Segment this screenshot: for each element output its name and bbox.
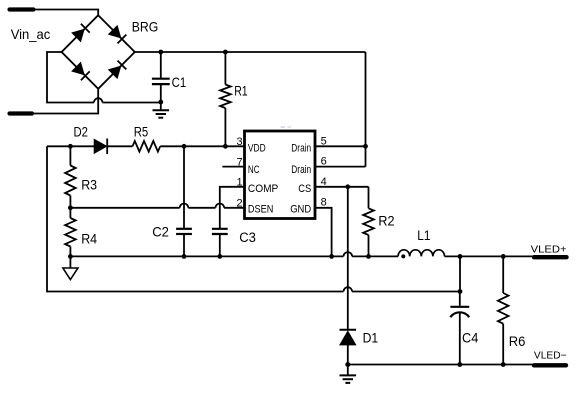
diode D2 triangle — [94, 139, 106, 153]
junction C2 bottom on rail — [182, 254, 187, 259]
junction CS node — [345, 184, 350, 189]
svg-text:C4: C4 — [462, 330, 479, 345]
wire D2 to R5 — [107, 145, 132, 147]
junction R6 bottom on VLED- rail — [501, 362, 506, 367]
svg-text:C1: C1 — [172, 75, 187, 90]
resistor R6 top lead — [502, 256, 504, 293]
svg-text:4: 4 — [321, 176, 327, 188]
svg-text:7: 7 — [236, 157, 242, 169]
wire feedback rail from left loop — [47, 146, 344, 291]
wire DSEN between hops — [188, 207, 215, 209]
svg-text:1: 1 — [236, 177, 242, 189]
svg-text:VLED+: VLED+ — [531, 245, 567, 256]
bridge diode upper-left (left to top vertex) — [72, 29, 84, 41]
junction R6 top on rail — [501, 254, 506, 259]
junction L1 output node — [458, 254, 463, 259]
wire bridge left vertex down to lower rail — [47, 52, 94, 103]
wire VLED- rail — [348, 364, 535, 366]
junction R4 bottom on rail — [68, 254, 73, 259]
svg-text:3: 3 — [236, 136, 242, 148]
bridge diode lower-left (left to bottom vertex) — [72, 63, 84, 75]
svg-text:COMP: COMP — [248, 183, 278, 195]
wire hop DSEN over C2 wire — [180, 204, 189, 208]
diode D1 anode lead — [347, 345, 349, 365]
diode D1 cathode bar — [340, 329, 357, 331]
junction C3 bottom on rail — [217, 254, 222, 259]
svg-text:BRG: BRG — [132, 19, 159, 34]
capacitor C2 top lead — [183, 146, 185, 228]
svg-text:R4: R4 — [81, 231, 97, 246]
svg-text:R1: R1 — [234, 84, 248, 99]
resistor R1 bottom lead — [224, 108, 226, 146]
wire NC pin 7 stub — [222, 166, 244, 168]
wire CS node down to D1 cathode — [347, 187, 349, 330]
resistor R3 top lead — [69, 146, 71, 165]
wire GND pin 8 to rail — [315, 208, 332, 257]
svg-text:VDD: VDD — [248, 143, 266, 155]
junction feedback rail at C4 — [458, 289, 463, 294]
svg-text:NC: NC — [248, 164, 260, 176]
svg-text:R5: R5 — [134, 125, 149, 140]
resistor R2 bottom lead — [368, 235, 370, 256]
resistor R5 body — [133, 141, 161, 152]
svg-text:Drain: Drain — [291, 143, 311, 155]
junction Drain pin 5 node — [363, 144, 368, 149]
inductor L1 phase dot — [401, 254, 405, 258]
junction C2 top — [182, 144, 187, 149]
svg-text:GND: GND — [290, 203, 311, 215]
svg-text:C3: C3 — [239, 230, 256, 246]
wire hop feedback rail over CS-D1 wire — [344, 287, 353, 291]
wire feedback rail to C4 node — [352, 291, 460, 293]
capacitor C2 plates — [176, 228, 192, 230]
bridge diode lower-right (bottom to right vertex) — [109, 66, 121, 78]
resistor R6 body — [498, 293, 509, 324]
junction R3/R4 DSEN node — [68, 205, 73, 210]
diode D2 cathode bar — [106, 139, 108, 155]
inductor L1 loops — [398, 250, 444, 257]
terminal bar Vin_ac bottom — [10, 111, 33, 115]
svg-text:R2: R2 — [378, 213, 394, 228]
resistor R6 bottom lead — [502, 324, 504, 365]
wire COMP pin 1 to C3 — [220, 187, 245, 229]
svg-text:2: 2 — [236, 198, 242, 210]
terminal bar VLED+ — [534, 255, 567, 259]
terminal bar VLED- — [534, 363, 566, 367]
svg-text:R6: R6 — [509, 334, 526, 349]
wire Drain5 to Drain6 vertical — [365, 146, 367, 166]
signal-ground triangle below R4 — [69, 256, 71, 268]
ground below C1 — [160, 103, 162, 111]
capacitor C1 plates — [152, 78, 170, 80]
capacitor C2 bottom lead — [183, 235, 185, 257]
junction D2 anode / R3 top — [68, 144, 73, 149]
wire left loop top corner to D2 anode — [47, 145, 94, 147]
capacitor C4 top plate — [450, 306, 469, 308]
capacitor C1 bottom lead — [160, 85, 162, 103]
bridge diode upper-right (top to right vertex) — [109, 26, 121, 38]
ground below D1 — [347, 365, 349, 376]
svg-text:Drain: Drain — [291, 164, 311, 176]
wire top rail right corner down to Drain pins — [365, 52, 367, 146]
wire CS pin 4 to R2 — [315, 186, 369, 188]
svg-text:8: 8 — [321, 197, 327, 209]
diode D1 triangle — [340, 331, 356, 345]
resistor R4 top lead — [69, 208, 71, 218]
resistor R2 body — [363, 208, 374, 235]
svg-text:R3: R3 — [81, 177, 97, 192]
svg-text:DSEN: DSEN — [248, 203, 273, 215]
junction C1 top — [158, 50, 163, 55]
resistor R4 bottom lead — [69, 247, 71, 257]
junction R1 top — [223, 50, 228, 55]
junction R2 bottom on rail — [366, 254, 371, 259]
wire Drain pin 6 stub — [315, 166, 366, 168]
svg-text:CS: CS — [298, 183, 311, 195]
wire L1 output down to feedback node — [459, 256, 461, 291]
junction D1 anode on VLED- rail — [345, 362, 350, 367]
wire L1 to VLED+ terminal — [445, 255, 535, 257]
resistor R4 body — [65, 218, 76, 247]
resistor R2 top lead — [368, 187, 370, 209]
svg-text:Vin_ac: Vin_ac — [11, 27, 51, 42]
IC box U1 — [245, 131, 316, 219]
wire hop DSEN over COMP/C3 wire — [216, 204, 225, 208]
capacitor C4 bottom lead — [459, 312, 461, 364]
wire DSEN pin 2 stub — [224, 207, 244, 209]
wire Drain pin 5 stub — [315, 145, 366, 147]
capacitor C4 top lead — [459, 292, 461, 306]
wire R5 to VDD pin 3 — [160, 145, 244, 147]
svg-text:C2: C2 — [152, 225, 169, 240]
svg-text:L1: L1 — [417, 228, 430, 243]
wire main rail left section — [70, 255, 343, 257]
wire lower rail to C1 bottom — [103, 102, 161, 104]
wire hop lower rail over bridge bottom wire — [94, 98, 103, 102]
resistor R3 bottom lead — [69, 196, 71, 208]
capacitor C3 plates — [212, 228, 228, 230]
capacitor C4 curved plate — [450, 312, 469, 317]
wire top rail bridge to drain corner — [135, 51, 366, 53]
wire bridge bottom vertex to lower terminal — [32, 89, 98, 114]
wire top terminal to bridge top vertex — [32, 10, 98, 16]
junction C1 bottom — [158, 100, 163, 105]
svg-text:D2: D2 — [74, 125, 89, 140]
resistor R1 body — [220, 85, 231, 109]
bridge BRG diamond outline — [62, 15, 135, 89]
junction GND pin on rail — [329, 254, 334, 259]
svg-text:VLED−: VLED− — [534, 350, 567, 361]
wire main rail to L1 — [352, 255, 398, 257]
svg-text:5: 5 — [321, 135, 327, 147]
resistor R3 body — [65, 166, 76, 196]
svg-text:6: 6 — [321, 156, 327, 168]
junction C4 bottom on VLED- rail — [457, 362, 462, 367]
capacitor C3 bottom lead — [219, 235, 221, 257]
terminal bar Vin_ac top — [10, 7, 34, 11]
svg-text:D1: D1 — [363, 331, 379, 346]
wire hop main rail over CS-D1 wire — [344, 252, 353, 256]
faint marks above IC — [281, 126, 286, 128]
junction R1 bottom / VDD node — [223, 144, 228, 149]
capacitor C1 top lead — [160, 52, 162, 78]
wire DSEN to R3/R4 node — [70, 207, 179, 209]
resistor R1 top lead — [224, 52, 226, 85]
